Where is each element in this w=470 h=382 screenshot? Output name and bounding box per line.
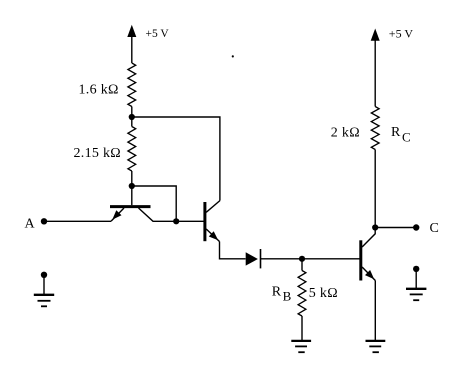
power +5V left arrow — [131, 37, 133, 64]
svg-text:R: R — [272, 284, 282, 299]
transistor Q1 base lead — [131, 186, 133, 205]
transistor Q1 base bar — [110, 205, 151, 208]
wire diode to RB node — [261, 258, 302, 260]
transistor Q2 base bar — [203, 202, 206, 241]
node junction dot (Q1 base node) — [129, 183, 135, 189]
terminal dot A — [41, 218, 47, 224]
ground right — [406, 288, 426, 290]
ground left — [34, 294, 54, 296]
wire 1.6k to node — [131, 107, 133, 118]
wire Q3 emitter to ground — [374, 281, 376, 341]
ground under RB — [291, 340, 311, 342]
transistor Q1 emitter — [111, 208, 124, 221]
wire Q2 emitter to diode — [220, 242, 246, 259]
diode D1 cathode bar — [260, 249, 262, 268]
svg-text:+5 V: +5 V — [389, 26, 414, 40]
ground left stem — [43, 275, 45, 295]
svg-text:1.6 kΩ: 1.6 kΩ — [79, 83, 119, 98]
node junction dot (Q3 collector / output) — [372, 224, 378, 230]
ground right stem — [415, 269, 417, 289]
wire RB to ground — [301, 316, 303, 340]
transistor Q2 collector — [206, 201, 220, 213]
wire input A — [44, 220, 111, 222]
svg-text:R: R — [391, 125, 401, 140]
wire 2.15k to node — [131, 171, 133, 186]
transistor Q2 emitter — [206, 229, 219, 242]
svg-text:5 kΩ: 5 kΩ — [309, 286, 338, 301]
resistor RB 5 kOhm — [301, 259, 303, 271]
resistor RC 2 kOhm — [371, 107, 379, 150]
ground under Q3 emitter — [366, 340, 386, 342]
transistor Q3 emitter — [362, 267, 375, 281]
wire node to Q3 base — [302, 258, 360, 260]
wire node to Q2 base — [176, 220, 203, 222]
svg-text:A: A — [25, 216, 36, 231]
transistor Q3 base bar — [359, 240, 362, 280]
resistor 1.6 kOhm — [128, 63, 136, 107]
wire RC to +5V arrow — [374, 40, 376, 107]
node junction dot (1.6k/2.15k) — [129, 114, 135, 120]
transistor Q3 collector — [362, 228, 375, 248]
stray dot artifact — [232, 55, 234, 57]
wire collector rail up — [374, 150, 376, 228]
wire node to Q2 collector rail — [132, 117, 220, 201]
node junction dot (RB / Q3 base) — [299, 256, 305, 262]
svg-text:C: C — [430, 221, 440, 236]
svg-text:2.15 kΩ: 2.15 kΩ — [74, 146, 122, 161]
terminal dot C — [413, 224, 419, 230]
wire output C — [375, 227, 416, 229]
wire base node over to collector node — [132, 186, 176, 221]
transistor Q1 collector — [139, 208, 177, 221]
resistor 2.15 kOhm — [131, 117, 133, 127]
svg-text:B: B — [283, 289, 292, 304]
svg-text:C: C — [402, 129, 411, 144]
svg-text:2 kΩ: 2 kΩ — [331, 126, 360, 141]
node junction dot (Q1 collector / Q2 base) — [173, 218, 179, 224]
diode D1 anode triangle — [246, 252, 258, 265]
power +5V right arrow — [371, 29, 380, 41]
ground left (input return) dot — [41, 272, 47, 278]
ground right (output return) dot — [413, 266, 419, 272]
svg-text:+5 V: +5 V — [146, 28, 170, 40]
